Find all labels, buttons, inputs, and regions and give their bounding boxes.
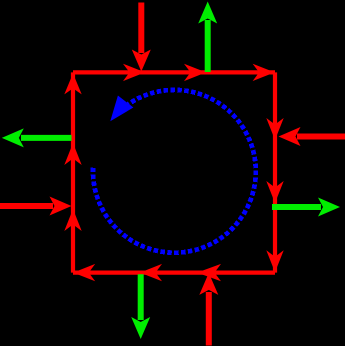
blue circulation arrowhead [110, 95, 133, 121]
external green arrow leaving left edge (left) [2, 128, 72, 147]
arrowhead left edge up at top-left corner [64, 73, 81, 94]
arrowhead right edge down at green junction [266, 181, 283, 203]
wire: square top edge [73, 70, 275, 74]
arrowhead top edge right at top-right corner [253, 64, 275, 81]
wire: square right edge [273, 72, 277, 272]
external red arrow entering top edge (down) [132, 3, 151, 72]
arrowhead right edge down at red junction [266, 118, 283, 140]
arrowhead left edge up at green junction [64, 143, 81, 165]
wire: square left edge [71, 72, 75, 272]
arrowhead bottom edge left at red junction [197, 264, 221, 281]
arrowhead right edge down at bottom-right corner [266, 250, 283, 272]
arrowhead bottom edge left at bottom-left corner [73, 264, 95, 281]
external green arrow leaving top edge (up) [198, 2, 217, 73]
external green arrow leaving right edge (right) [272, 198, 340, 217]
external red arrow entering left edge (right) [0, 197, 72, 216]
arrowhead left edge up at red junction [64, 209, 81, 231]
arrowhead top edge right at red junction [123, 64, 145, 81]
blue dotted circulation circle (counterclockwise) [93, 90, 256, 253]
wire: square bottom edge [73, 271, 275, 275]
external red arrow entering right edge (left) [279, 127, 345, 146]
external green arrow leaving bottom edge (down) [131, 274, 150, 339]
arrowhead bottom edge left at green junction [140, 264, 162, 281]
arrowhead top edge right at green junction [184, 64, 206, 81]
external red arrow entering bottom edge (up) [199, 273, 218, 346]
